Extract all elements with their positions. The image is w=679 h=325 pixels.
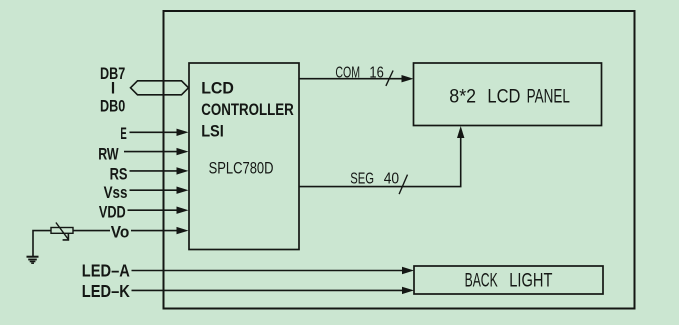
bus range bar [112, 82, 114, 94]
svg-text:LCD: LCD [201, 80, 234, 98]
back light box [414, 266, 603, 294]
svg-text:RS: RS [110, 165, 128, 183]
svg-text:LED–K: LED–K [82, 281, 130, 301]
svg-text:8*2: 8*2 [449, 87, 476, 108]
svg-text:VDD: VDD [99, 204, 126, 222]
bus width slash [386, 71, 393, 86]
svg-text:E: E [120, 125, 126, 143]
svg-text:DB7: DB7 [100, 65, 125, 83]
8*2 LCD panel box [414, 63, 602, 126]
wire SEG bus [299, 129, 461, 187]
svg-text:DB0: DB0 [100, 97, 125, 115]
svg-text:BACK: BACK [465, 271, 498, 292]
wire COM bus [299, 78, 404, 80]
bus width slash [399, 175, 407, 195]
svg-text:SEG: SEG [350, 170, 374, 187]
svg-text:RW: RW [98, 146, 119, 164]
svg-text:LED–A: LED–A [82, 261, 130, 281]
svg-text:COM: COM [335, 64, 360, 81]
wire E [130, 131, 179, 133]
wire RS [130, 170, 179, 172]
wire LED-K [132, 289, 405, 291]
rheostat RV1 [51, 228, 73, 234]
wire Vo [131, 230, 178, 232]
module outline box [164, 11, 635, 309]
svg-text:Vss: Vss [104, 184, 128, 202]
wire Vss [130, 189, 179, 191]
wire VDD [128, 209, 179, 211]
svg-text:LCD: LCD [487, 87, 520, 108]
LCD controller box U1 [189, 63, 299, 250]
svg-text:CONTROLLER: CONTROLLER [201, 101, 294, 119]
wire LED-A [132, 270, 405, 272]
svg-text:PANEL: PANEL [527, 87, 570, 108]
wire rheostat to ground [33, 231, 51, 256]
wire RW [124, 151, 178, 153]
svg-text:40: 40 [384, 170, 399, 187]
ground [27, 256, 39, 258]
data bus double arrow [131, 81, 189, 95]
svg-text:LSI: LSI [201, 123, 224, 141]
svg-text:16: 16 [369, 64, 383, 81]
svg-text:Vo: Vo [111, 224, 130, 242]
svg-text:LIGHT: LIGHT [509, 271, 552, 292]
wire Vo to rheostat [73, 230, 110, 232]
svg-text:SPLC780D: SPLC780D [209, 160, 274, 178]
